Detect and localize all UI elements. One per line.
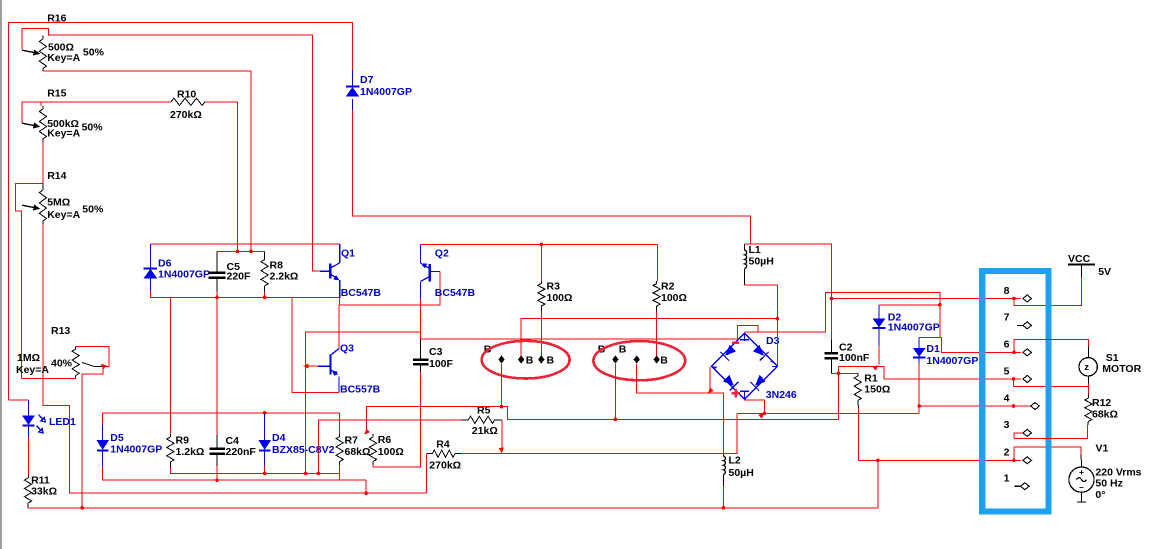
pin 4: [1004, 392, 1040, 409]
diode D2 1N4007GP: [873, 305, 940, 346]
wire D1 bottom to plus net: [918, 364, 920, 414]
junction node B1 on R6 net: [500, 405, 504, 409]
resistor R6 100ohm: [369, 434, 403, 465]
wire D2 top feed: [879, 304, 940, 306]
wire R15 top stub: [40, 102, 42, 106]
svg-text:Q3: Q3: [340, 343, 354, 355]
AC source V1 220Vrms: [1069, 443, 1142, 503]
resistor R3 100ohm: [538, 244, 573, 311]
wire LED1 feed from left bus: [9, 399, 29, 401]
svg-text:100Ω: 100Ω: [547, 292, 573, 304]
wire R7 bottom to rails: [339, 465, 341, 480]
wire bus R16-top to Q1 base: [49, 35, 320, 271]
svg-text:z: z: [1084, 362, 1089, 373]
svg-text:Q2: Q2: [435, 248, 449, 260]
wire R13 wiper down to ground bus: [82, 367, 103, 508]
pin 8: [1004, 285, 1032, 302]
svg-text:6: 6: [1004, 339, 1010, 351]
svg-text:1.2kΩ: 1.2kΩ: [176, 446, 205, 458]
wire C2 net riser to bus: [837, 367, 839, 420]
wire D5 bottom to rail B: [103, 467, 366, 481]
svg-text:D7: D7: [360, 74, 374, 86]
junction pin2 V1 branch: [1012, 459, 1016, 463]
wire C5 rail top: [217, 250, 265, 252]
svg-text:2.2kΩ: 2.2kΩ: [270, 271, 299, 283]
svg-text:50 Hz: 50 Hz: [1095, 478, 1122, 490]
junction ground bus L2: [722, 506, 726, 510]
svg-text:50%: 50%: [82, 204, 104, 216]
svg-text:R10: R10: [177, 89, 196, 101]
wire pin2 to V1: [1014, 447, 1081, 460]
wire rail A riser to R5 rail: [318, 420, 461, 474]
LED LED1: [22, 400, 76, 437]
junction D4 top: [263, 411, 267, 415]
pin 2: [1004, 447, 1032, 464]
transistor Q3 BC557B: [318, 305, 381, 395]
wire pin 4 net: [919, 405, 1029, 407]
wire C3 top net to bridge minus: [421, 326, 758, 340]
svg-text:1N4007GP: 1N4007GP: [360, 86, 412, 98]
svg-text:V1: V1: [1096, 443, 1109, 455]
wire R13 bottom to R14 wiper drop: [22, 378, 76, 380]
svg-text:100Ω: 100Ω: [378, 446, 404, 458]
wire S1 bottom red: [1087, 384, 1089, 387]
svg-text:3N246: 3N246: [766, 389, 797, 401]
svg-text:Key=A: Key=A: [47, 52, 80, 64]
inductor L2 50uH: [723, 453, 753, 486]
svg-text:0°: 0°: [1095, 489, 1105, 501]
wire Q3 base stub with arrow: [305, 365, 319, 367]
transistor Q2 BC547B: [421, 244, 476, 299]
svg-text:1: 1: [1004, 473, 1010, 485]
svg-text:270kΩ: 270kΩ: [429, 460, 461, 472]
junction bridge right: [776, 317, 780, 321]
wire R13 top to wiper jog: [76, 346, 109, 366]
svg-text:D4: D4: [272, 432, 286, 444]
wire D7 to L1 top: [353, 110, 751, 244]
svg-text:R7: R7: [345, 435, 359, 447]
svg-text:50µH: 50µH: [749, 256, 774, 268]
bridge rectifier D3 3N246: [712, 332, 797, 401]
wire node B g2-2 to bridge left and L2: [637, 364, 724, 454]
svg-text:L1: L1: [749, 244, 761, 256]
resistor R1 150ohm: [854, 373, 890, 408]
power VCC 5V: [1068, 253, 1111, 278]
junction pin2 ground drop: [876, 459, 880, 463]
capacitor C5 220F: [209, 251, 252, 291]
svg-text:68kΩ: 68kΩ: [1092, 409, 1118, 421]
svg-text:Q1: Q1: [341, 248, 355, 260]
svg-text:R9: R9: [176, 435, 190, 447]
wire bridge left terminal drop: [709, 367, 711, 393]
svg-text:100nF: 100nF: [839, 352, 870, 364]
node B diamonds group 2: [598, 343, 669, 366]
wire R9 bottom rail A: [170, 467, 339, 473]
potentiometer R14 5M: [22, 170, 104, 224]
svg-text:R16: R16: [47, 13, 66, 25]
svg-text:68kΩ: 68kΩ: [345, 446, 371, 458]
wire R14 top jog to wiper and down to R13 bottom: [15, 184, 43, 379]
svg-text:BC557B: BC557B: [340, 384, 381, 396]
wire ground bus bottom: [28, 507, 878, 509]
junction pin5: [1012, 377, 1016, 381]
wire R8 bottom: [264, 292, 266, 298]
svg-text:B: B: [619, 344, 627, 356]
svg-text:LED1: LED1: [49, 416, 76, 428]
resistor R4 270k: [427, 439, 461, 472]
svg-text:50%: 50%: [83, 47, 105, 59]
junction rail A: [263, 472, 267, 476]
inductor L1 50uH: [745, 244, 774, 285]
svg-text:BC547B: BC547B: [341, 287, 382, 299]
diode D1 1N4007GP: [913, 338, 978, 367]
wire R4 left drop: [426, 454, 428, 494]
pin 6: [1004, 339, 1032, 356]
svg-text:R4: R4: [436, 439, 450, 451]
pin 7: [1004, 312, 1032, 329]
wire Q2 collector down to C3 net: [420, 298, 422, 339]
junction D1 pin4: [917, 404, 921, 408]
svg-text:3: 3: [1004, 419, 1010, 431]
svg-text:1N4007GP: 1N4007GP: [888, 322, 940, 334]
wire R16 bottom to C5 rail: [43, 71, 251, 251]
svg-text:L2: L2: [729, 455, 741, 467]
svg-text:MOTOR: MOTOR: [1102, 363, 1141, 375]
svg-text:100Ω: 100Ω: [661, 292, 687, 304]
potentiometer R16 500ohm: [22, 13, 104, 72]
capacitor C3 100F: [413, 339, 454, 372]
svg-text:B: B: [526, 355, 534, 367]
junction bus: [614, 418, 618, 422]
wire R3 bottom to node B diamond: [540, 312, 542, 357]
wire C2 net to pin 8: [831, 298, 1020, 300]
svg-text:1MΩ: 1MΩ: [17, 352, 40, 364]
resistor R12 68k: [1085, 395, 1118, 426]
svg-text:Key=A: Key=A: [47, 128, 80, 140]
wire Q1 emitter to Q2 net: [340, 271, 440, 305]
wire D2 bottom: [878, 345, 880, 364]
svg-text:BZX85-C8V2: BZX85-C8V2: [272, 444, 335, 456]
connector J1 blue box: [982, 271, 1048, 512]
wire C2 bottom to R1 top: [831, 372, 857, 375]
wire D5 box top rail: [103, 412, 340, 414]
wire rail B to rail C: [365, 480, 367, 493]
svg-text:R3: R3: [547, 281, 561, 293]
svg-text:40%: 40%: [51, 358, 73, 370]
svg-text:~: ~: [770, 360, 774, 367]
wire D2 bottom net: [838, 367, 1020, 380]
wire drop to R9: [169, 297, 171, 434]
svg-text:+: +: [1079, 467, 1084, 477]
resistor R5 21k: [461, 405, 501, 438]
junction R3 top: [540, 243, 544, 247]
wire R2 bottom to node B diamond: [656, 312, 658, 357]
resistor R11 33k: [24, 475, 57, 508]
wire R10 bus R15 to C5 rail: [22, 102, 171, 123]
wire plus net to L2 top rail: [737, 412, 764, 414]
diode D7 1N4007GP: [346, 70, 412, 110]
svg-text:100F: 100F: [429, 358, 454, 370]
resistor R10 270k: [170, 89, 205, 122]
wire W1 Q2 net to rail A: [306, 305, 421, 473]
wire L1 top to C2 top: [745, 244, 832, 340]
svg-text:4: 4: [1004, 392, 1010, 404]
capacitor C2 100nF: [825, 340, 870, 373]
wire drop to Q3 emitter: [292, 297, 339, 392]
wire pin8 to VCC: [1014, 277, 1082, 305]
annotation ellipse 1: [482, 341, 570, 379]
wire R14 bottom to rail C: [43, 224, 427, 493]
wire L1 net to node B2: [521, 319, 777, 356]
wire C4 bottom to rail B: [216, 466, 218, 480]
svg-text:1N4007GP: 1N4007GP: [926, 355, 978, 367]
wire C3 bottom to R6 bottom: [373, 372, 421, 467]
svg-text:220F: 220F: [227, 271, 252, 283]
wire LED1 to R11: [28, 437, 30, 475]
wire R15 bottom to R14 top: [42, 142, 44, 184]
svg-text:R12: R12: [1092, 397, 1111, 409]
wire bridge plus net: [745, 400, 920, 414]
svg-text:220nF: 220nF: [226, 446, 257, 458]
svg-text:5V: 5V: [1098, 266, 1111, 278]
sheet frame left border: [0, 0, 2, 549]
junction D2 feed: [938, 303, 942, 307]
diode D6 1N4007GP: [144, 244, 210, 291]
wire D1 top feed: [919, 337, 940, 339]
svg-text:270kΩ: 270kΩ: [170, 109, 202, 121]
pin 5: [1004, 365, 1032, 382]
svg-text:150Ω: 150Ω: [864, 384, 890, 396]
wire pin2 drop to ground bus: [877, 460, 879, 508]
svg-text:~: ~: [713, 366, 717, 373]
wire pin3 to R12 bottom: [1014, 425, 1088, 439]
wire R6 bottom stub: [372, 465, 374, 468]
transistor Q1 BC547B: [320, 244, 381, 299]
svg-text:2: 2: [1004, 447, 1010, 459]
wire R16 top jog to wiper: [22, 29, 49, 50]
wire D4 bottom to rail A: [264, 466, 266, 474]
svg-text:21kΩ: 21kΩ: [472, 425, 498, 437]
svg-text:R13: R13: [51, 325, 70, 337]
potentiometer R13 1M: [16, 325, 103, 379]
svg-text:R15: R15: [47, 88, 66, 100]
svg-text:5MΩ: 5MΩ: [47, 197, 70, 209]
wire bridge minus to D1 D2 and pin 6: [745, 293, 1021, 353]
resistor R2 100ohm: [653, 244, 687, 311]
wire L2 bottom to ground bus: [722, 486, 724, 508]
svg-text:D5: D5: [110, 432, 124, 444]
wire top bus from R16 top-left corner to D7: [9, 22, 353, 399]
junction C5 rail feeds: [236, 250, 240, 254]
svg-text:7: 7: [1004, 312, 1010, 324]
wire pin5 branch to S1 bottom and R12: [1014, 379, 1089, 395]
wire C5 bottom: [216, 292, 218, 298]
svg-text:–: –: [1079, 482, 1084, 492]
capacitor C4 220nF: [209, 435, 256, 466]
wire L1 bottom to bridge right: [745, 285, 778, 367]
motor S1: [1079, 347, 1142, 384]
svg-text:33kΩ: 33kΩ: [31, 486, 57, 498]
junction pin8 vcc branch: [1012, 297, 1016, 301]
junction plus net corner: [763, 412, 767, 416]
svg-text:1N4007GP: 1N4007GP: [158, 269, 210, 281]
svg-text:1N4007GP: 1N4007GP: [110, 444, 162, 456]
svg-text:B: B: [660, 355, 668, 367]
wire drop to C4: [216, 297, 218, 435]
diode D4 BZX85-C8V2: [258, 413, 334, 466]
svg-text:50µH: 50µH: [729, 467, 754, 479]
resistor R9 1.2k: [167, 434, 205, 467]
svg-text:B: B: [547, 355, 555, 367]
svg-text:BC547B: BC547B: [435, 287, 476, 299]
wire R6 top net to node B1 and bus: [366, 407, 838, 433]
pin 3: [1004, 419, 1032, 438]
svg-text:R6: R6: [378, 434, 392, 446]
junction D6 rail bottom: [215, 296, 219, 300]
wire R5 right drop: [501, 420, 503, 452]
node B diamonds group 1: [484, 344, 555, 367]
svg-text:D1: D1: [926, 343, 940, 355]
svg-text:Key=A: Key=A: [47, 209, 80, 221]
junction C2 pin8: [830, 297, 834, 301]
svg-text:50%: 50%: [82, 122, 104, 134]
resistor R7 68k: [336, 413, 370, 465]
svg-text:R2: R2: [661, 281, 675, 293]
pin 1: [1004, 473, 1030, 490]
junction C2R1 riser: [837, 372, 841, 376]
svg-text:5: 5: [1004, 365, 1010, 377]
wire node B g2-1 down to bus: [614, 364, 616, 420]
svg-text:Key=A: Key=A: [16, 364, 49, 376]
resistor R8 2.2k: [261, 251, 298, 291]
svg-text:C3: C3: [429, 346, 443, 358]
diode D5 1N4007GP: [96, 425, 162, 467]
wire D6 bottom rail: [150, 291, 339, 297]
svg-text:VCC: VCC: [1068, 253, 1091, 265]
potentiometer R15 500k: [22, 88, 103, 143]
svg-text:R14: R14: [47, 170, 66, 182]
annotation ellipse 2: [593, 341, 685, 380]
junction ground bus R13 drop: [80, 506, 84, 510]
wire D6 rail: [150, 243, 339, 245]
wire R1 bottom to pin 2: [859, 407, 1022, 460]
wire node B1 down to R6 net: [501, 364, 503, 407]
svg-text:8: 8: [1004, 285, 1010, 297]
wire Q2 top to R3 R2 tops: [421, 243, 658, 245]
wire pin6 branch to S1: [1014, 339, 1088, 352]
